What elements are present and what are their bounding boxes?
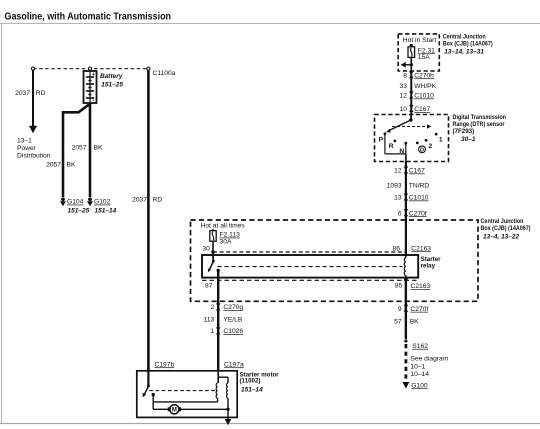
svg-text:S162: S162 <box>412 343 428 350</box>
svg-text:C197a: C197a <box>224 361 244 368</box>
svg-text:D: D <box>420 148 424 154</box>
svg-text:85: 85 <box>395 283 403 290</box>
svg-text:13: 13 <box>394 195 402 202</box>
svg-text:Power: Power <box>17 145 37 152</box>
relay coil (pins 86-85) <box>405 252 407 258</box>
wire: branch arrow left <box>405 64 411 66</box>
connector C270g (pin 2) <box>216 303 221 310</box>
wire: circuit 33 WH/PK fuse F2.31 to DTR sensor <box>400 71 437 115</box>
svg-text:BK: BK <box>410 318 419 325</box>
svg-text:R: R <box>389 143 394 150</box>
svg-text:87: 87 <box>205 282 213 289</box>
DTR contact 2 <box>425 139 428 142</box>
wire: circuit 113 YE/LB relay 87 to starter solenoid <box>204 271 244 372</box>
junction: ground leg node <box>226 408 229 411</box>
wire: circuit 2037 RD from C1100a to starter motor C197b <box>132 71 162 372</box>
junction: pin 30 node <box>211 250 215 254</box>
connector C167 (pin 12) <box>404 167 409 174</box>
svg-text:13–1: 13–1 <box>17 138 32 145</box>
svg-text:C2163: C2163 <box>411 283 431 290</box>
svg-text:G100: G100 <box>411 382 428 389</box>
page rule left <box>1 24 3 424</box>
DTR rotation dashed arrow <box>392 126 427 128</box>
svg-text:TN/RD: TN/RD <box>409 182 430 189</box>
page rule top <box>0 23 540 25</box>
svg-text:2: 2 <box>210 304 214 311</box>
svg-text:10–1: 10–1 <box>410 364 425 371</box>
svg-text:(7F293): (7F293) <box>453 128 475 135</box>
svg-text:(11002): (11002) <box>240 378 261 385</box>
svg-text:C167: C167 <box>414 106 430 113</box>
svg-text:57: 57 <box>394 318 402 325</box>
svg-text:2037: 2037 <box>132 197 147 204</box>
svg-text:8: 8 <box>403 72 407 79</box>
svg-text:M: M <box>172 408 177 414</box>
svg-text:151–25: 151–25 <box>68 207 90 214</box>
dashed internal bus pin 30 to pin 86 <box>213 251 406 253</box>
svg-text:1: 1 <box>210 328 214 335</box>
DTR contact D <box>416 142 419 145</box>
svg-text:30: 30 <box>202 245 210 252</box>
svg-text:C1010: C1010 <box>414 93 434 100</box>
svg-text:Box (CJB) (14A067): Box (CJB) (14A067) <box>481 225 531 232</box>
svg-text:Digital Transmission: Digital Transmission <box>453 114 507 121</box>
battery <box>84 71 124 104</box>
svg-text:RD: RD <box>153 197 163 204</box>
svg-text:1093: 1093 <box>387 182 402 189</box>
wire: winding feed branch <box>218 376 228 378</box>
svg-text:WH/PK: WH/PK <box>414 83 436 90</box>
svg-text:Central Junction: Central Junction <box>443 33 486 40</box>
dashed internal bus below relay <box>202 279 418 281</box>
svg-text:C167: C167 <box>409 168 425 175</box>
svg-text:C1010: C1010 <box>409 195 429 202</box>
fuse F2.31 15A <box>408 47 415 58</box>
svg-text:9: 9 <box>398 306 402 313</box>
svg-text:relay: relay <box>421 263 436 270</box>
connector C167 (pin 10) <box>409 105 414 112</box>
DTR contact N <box>404 142 407 145</box>
page rule bottom <box>0 423 540 425</box>
svg-text:2057: 2057 <box>72 145 87 152</box>
svg-text:10: 10 <box>400 106 408 113</box>
DTR contact R <box>394 140 397 143</box>
ground G104 <box>60 197 90 214</box>
node: battery positive terminal <box>88 67 91 70</box>
wire: branch elbow to G104 <box>63 104 89 112</box>
svg-text:2057: 2057 <box>46 162 61 169</box>
svg-text:12: 12 <box>400 93 408 100</box>
Central Junction Box (CJB) (14A067) dashed enclosure <box>191 218 531 301</box>
DTR sensor box (7F293) <box>375 113 507 162</box>
relay contact arm (pin 30) <box>212 255 214 261</box>
starter solenoid contact switch <box>143 371 218 409</box>
svg-text:6: 6 <box>398 210 402 217</box>
wire: DTR output <box>405 154 407 162</box>
svg-text:+: + <box>92 72 95 78</box>
wire: fuse output to relay pin 30 <box>212 241 214 255</box>
ground at starter motor case <box>225 419 232 425</box>
svg-text:1: 1 <box>439 137 443 144</box>
wire: dashed battery positive feed bus <box>33 68 149 70</box>
svg-text:P: P <box>379 136 384 143</box>
wire: input into DTR <box>410 113 412 120</box>
svg-text:15A: 15A <box>418 54 430 61</box>
pull-in winding <box>216 383 217 398</box>
node: fuse supply <box>410 44 413 47</box>
svg-text:C270f: C270f <box>409 210 427 217</box>
svg-text:13–4, 13–22: 13–4, 13–22 <box>483 233 520 240</box>
svg-text:See diagram: See diagram <box>410 355 448 362</box>
svg-text:C1026: C1026 <box>223 328 243 335</box>
ground G102 <box>87 197 117 214</box>
svg-text:Battery: Battery <box>100 73 123 80</box>
junction: pin 85 node <box>404 278 408 282</box>
svg-text:30–1: 30–1 <box>461 136 476 143</box>
ground G100 arrow <box>402 382 409 389</box>
DTR contact 1 <box>435 133 438 136</box>
svg-text:Gasoline, with Automatic Trans: Gasoline, with Automatic Transmission <box>5 12 172 23</box>
connector C270f (pin 9) <box>404 305 409 312</box>
svg-text:Box (CJB) (14A067): Box (CJB) (14A067) <box>443 40 493 47</box>
svg-text:30A: 30A <box>220 238 232 245</box>
svg-text:113: 113 <box>204 317 215 324</box>
svg-text:Hot at all times: Hot at all times <box>201 222 246 229</box>
wire: motor to ground leg <box>180 408 228 410</box>
svg-text:C197b: C197b <box>155 361 175 368</box>
wire: circuit 1093 TN/RD DTR sensor to CJB <box>387 162 430 339</box>
svg-text:Range (DTR) sensor: Range (DTR) sensor <box>453 121 506 128</box>
svg-text:13–14, 13–31: 13–14, 13–31 <box>444 48 484 55</box>
DTR selector arm <box>389 120 411 131</box>
connector C1010 (pin 12) <box>409 92 414 99</box>
relay contact 87 <box>217 269 220 272</box>
svg-text:C1100a: C1100a <box>153 70 176 77</box>
svg-text:C2163: C2163 <box>411 245 431 252</box>
svg-text:C270h: C270h <box>414 72 434 79</box>
battery cell plates <box>86 76 94 78</box>
svg-text:2037: 2037 <box>15 90 30 97</box>
svg-text:G104: G104 <box>67 199 84 206</box>
fuse F2.113 30A <box>211 229 214 232</box>
junction: branch to other circuits <box>410 63 413 66</box>
relay actuation dashed link <box>218 266 403 268</box>
connector C270f (pin 6) <box>404 209 409 216</box>
svg-text:86: 86 <box>393 245 401 252</box>
connector C1026 (pin 1) <box>216 327 221 334</box>
node: DTR wiper pivot <box>409 118 412 121</box>
wire: fuse output <box>410 57 412 71</box>
starter relay <box>202 245 441 290</box>
wire: battery negative to grounds (2057 BK) <box>46 103 103 197</box>
svg-text:Hot in Start: Hot in Start <box>403 37 437 44</box>
svg-text:BK: BK <box>94 145 103 152</box>
solenoid actuation dashed link <box>149 390 215 392</box>
hold-in winding <box>227 377 229 383</box>
svg-text:Central Junction: Central Junction <box>481 218 524 225</box>
connector C270h (pin 8) <box>409 71 414 78</box>
wire: N contact to output <box>405 143 407 154</box>
svg-text:12: 12 <box>394 168 402 175</box>
svg-text:151–14: 151–14 <box>95 207 117 214</box>
svg-text:YE/LB: YE/LB <box>223 317 242 324</box>
svg-text:BK: BK <box>67 162 76 169</box>
svg-text:-: - <box>92 97 94 104</box>
starter motor M <box>153 405 230 414</box>
connector C1010 (pin 13) <box>404 194 409 201</box>
svg-text:C270f: C270f <box>410 306 428 313</box>
svg-text:C270g: C270g <box>223 304 243 311</box>
DTR contact P <box>384 132 387 135</box>
wire: P contact strap to output <box>384 135 386 154</box>
wire: circuit 2037 RD to Power Distribution <box>15 71 51 160</box>
starter motor box (11002) <box>137 361 279 417</box>
wire: circuit 57 BK relay coil to ground G100 <box>394 281 449 389</box>
off-page arrow to 13-1 Power Distribution <box>29 126 37 133</box>
svg-text:Distribution: Distribution <box>17 153 51 160</box>
svg-text:151–14: 151–14 <box>241 386 263 393</box>
wire: contact to winding common <box>153 401 217 403</box>
node C1100a <box>147 67 150 70</box>
node: left tap of positive bus <box>31 67 34 70</box>
svg-text:33: 33 <box>400 83 408 90</box>
Hot in Start fuse box (CJB) <box>398 33 493 71</box>
svg-text:G102: G102 <box>94 199 111 206</box>
svg-text:151–25: 151–25 <box>101 81 123 88</box>
svg-text:2: 2 <box>429 143 433 150</box>
starter solenoid windings <box>216 371 228 419</box>
solenoid output contact <box>152 393 155 396</box>
svg-text:10–14: 10–14 <box>410 371 429 378</box>
wire: dashed continuation via splice S162 <box>404 339 407 342</box>
svg-text:RD: RD <box>36 90 46 97</box>
